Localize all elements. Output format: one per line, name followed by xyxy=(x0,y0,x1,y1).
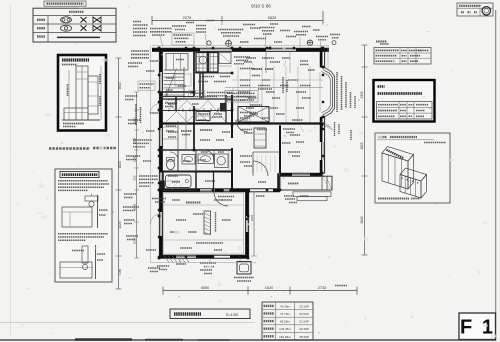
left label block storage W1520 xyxy=(131,50,149,52)
svg-text:43.39P: 43.39P xyxy=(299,327,309,331)
LD extra labels xyxy=(300,64,309,66)
drawing title box xyxy=(170,309,250,319)
svg-text:1823: 1823 xyxy=(360,142,364,149)
aircon outdoor unit xyxy=(237,262,251,275)
svg-text:151.96m: 151.96m xyxy=(279,335,291,339)
svg-text:F 1: F 1 xyxy=(460,317,495,339)
svg-text:3640: 3640 xyxy=(118,82,122,89)
bathtub xyxy=(166,175,192,188)
stamp box frame xyxy=(457,3,493,16)
column dots along exterior walls xyxy=(158,47,160,49)
cabinet panel frame xyxy=(375,133,450,203)
svg-text:2275: 2275 xyxy=(183,15,192,20)
door arc entrance xyxy=(253,161,268,176)
door arc hall-washroom xyxy=(204,150,214,160)
ceiling label xyxy=(240,112,256,114)
entrance area labels xyxy=(282,77,284,93)
ventilation fan sketch 1 counter xyxy=(62,207,92,227)
svg-text:2730: 2730 xyxy=(318,286,326,290)
bottom below-wing numbers xyxy=(200,269,212,271)
legend row2 symbol ellipse xyxy=(61,25,72,31)
kitchen pack title xyxy=(62,58,89,61)
LD small label xyxy=(376,41,387,43)
pantry label xyxy=(181,130,192,132)
info panel room list xyxy=(378,92,423,95)
svg-text:23.10P: 23.10P xyxy=(299,304,309,308)
misc leader lines inside plan xyxy=(250,60,254,66)
stair mid landing box xyxy=(175,74,191,86)
below-wall tick leaders xyxy=(179,258,181,263)
bay corner hatch xyxy=(321,121,326,127)
dining partition lines xyxy=(265,51,267,73)
svg-text:69.56m: 69.56m xyxy=(280,320,291,324)
kitchen pack right dimension xyxy=(100,66,102,120)
svg-text:1820: 1820 xyxy=(133,203,137,210)
west wall window sashes xyxy=(160,72,162,92)
annotation block toumi xyxy=(294,31,308,33)
wing east exterior wall xyxy=(245,192,247,258)
ventilation fan title box xyxy=(60,172,99,178)
svg-text:4395: 4395 xyxy=(360,91,364,98)
east exterior wall upper xyxy=(321,48,323,68)
right vertical notes column 3 xyxy=(345,82,347,108)
kitchen pack panel frame xyxy=(58,55,106,131)
counter label xyxy=(236,96,256,98)
svg-text:21.04P: 21.04P xyxy=(299,320,309,324)
refrigerator xyxy=(219,53,231,64)
F1 sheet number box xyxy=(459,313,496,340)
sheet bottom faint fold line xyxy=(0,322,255,324)
storage boxed label xyxy=(172,33,194,45)
cabinet isometric tall unit front xyxy=(382,153,408,189)
svg-text:1185: 1185 xyxy=(118,268,122,275)
circled cross symbol 2 xyxy=(226,40,232,46)
kitchen pack counter xyxy=(64,108,88,120)
light scan noise xyxy=(224,189,230,191)
kitchen block stripes xyxy=(198,53,200,73)
info panel title 1F xyxy=(378,85,385,88)
left inner dimension chain xyxy=(136,92,138,258)
bay window interior sill lines xyxy=(319,72,321,112)
area table rows xyxy=(264,305,275,307)
hall area labels xyxy=(198,113,210,115)
porch corner diagonals xyxy=(326,176,332,190)
legend row3 label xyxy=(37,35,45,37)
cabinet isometric tall unit top xyxy=(382,147,414,162)
cabinet isometric tall unit side xyxy=(408,155,414,190)
washroom labels xyxy=(201,151,208,153)
door arc wc xyxy=(170,152,178,160)
ventilation fan sketch 1 wall xyxy=(97,195,99,228)
wing inner room outline xyxy=(164,193,244,254)
genkan shoe cabinet xyxy=(254,128,266,148)
staircase arrow xyxy=(166,69,177,97)
legend row1 bowtie mark xyxy=(93,17,101,23)
top annotation extra 2 xyxy=(186,22,194,24)
top wall window sash kitchen xyxy=(200,49,232,51)
cabinet panel bottom note xyxy=(378,198,409,200)
ventilation fan sketch 2 wall xyxy=(95,245,97,279)
wc west casement window arc xyxy=(150,104,159,114)
cabinet top label band xyxy=(386,150,403,158)
circled symbol 4 xyxy=(332,41,336,45)
entrance hall wall vertical xyxy=(279,125,281,173)
circled cross symbol 3 xyxy=(307,40,312,45)
stair area labels xyxy=(166,77,175,79)
dining labels xyxy=(240,68,254,70)
porch steps below xyxy=(293,192,331,197)
kitchen counter front line xyxy=(194,72,232,74)
top-left gutter label block xyxy=(133,21,141,23)
wing south exterior wall xyxy=(159,254,248,256)
interior wall hall vertical xyxy=(193,51,195,150)
entrance lower labels xyxy=(240,129,252,131)
wing interior extra xyxy=(164,204,244,206)
legend row1 X mark xyxy=(81,17,87,23)
cabinet isometric low unit side xyxy=(421,175,427,199)
porch outline xyxy=(280,176,332,190)
bath floor hatch xyxy=(166,183,171,188)
legend row1 label xyxy=(37,19,45,21)
plan top-right outside note xyxy=(380,43,389,45)
units note right of bottom dim xyxy=(335,285,347,287)
annotation block mb548 xyxy=(316,36,328,38)
labels under south wall xyxy=(152,198,166,200)
LD tatami flooring lines xyxy=(237,66,239,122)
ventilation fan sketch 2 duct xyxy=(82,246,88,263)
ventilation fan paragraph 2 xyxy=(58,233,108,235)
legend table frame xyxy=(33,8,116,42)
hall boxed label right xyxy=(225,91,258,103)
pantry shelf lines xyxy=(163,126,178,128)
porch area labels xyxy=(285,198,295,200)
cabinet isometric low unit top xyxy=(400,168,427,181)
legend title box xyxy=(44,1,86,6)
svg-text:1820: 1820 xyxy=(133,137,137,144)
hall inner partition xyxy=(185,110,187,150)
svg-text:9/10 S 86: 9/10 S 86 xyxy=(251,4,271,9)
wing bottom-left ground hatch xyxy=(164,256,169,263)
stamp box dots xyxy=(461,11,464,13)
right column extra rotated xyxy=(334,122,336,136)
svg-text:910: 910 xyxy=(133,175,137,180)
svg-text:143.45m: 143.45m xyxy=(279,327,291,331)
ventilation fan paragraph 1 xyxy=(58,180,108,182)
legend header marks xyxy=(69,11,84,13)
interior wall center vertical xyxy=(231,95,233,192)
legend row2 bowtie mark xyxy=(93,25,101,31)
stair label xyxy=(168,99,181,101)
cabinet isometric low unit front xyxy=(400,175,421,199)
top annotation extra blocks xyxy=(172,25,186,27)
closet east wall xyxy=(225,95,227,124)
left boxed window label xyxy=(138,81,155,91)
closet dark block xyxy=(220,103,226,112)
kitchen peninsula dark bar xyxy=(199,72,204,98)
svg-text:5825: 5825 xyxy=(268,15,277,20)
wing partition label xyxy=(196,242,223,244)
area table frame xyxy=(262,302,313,340)
staircase treads xyxy=(164,69,184,71)
closet diagonal marks xyxy=(166,101,187,123)
LD room scattered labels xyxy=(246,57,256,59)
stair landing edge xyxy=(159,96,194,98)
kitchen pack left dimension xyxy=(68,70,70,120)
stamp box title xyxy=(459,5,481,7)
ventilation fan panel frame xyxy=(55,169,112,282)
left label block towel xyxy=(133,139,152,141)
eave outline top xyxy=(152,45,329,47)
left margin faint fold line xyxy=(10,5,12,335)
LD room label xyxy=(252,68,262,70)
wing right mini dimension xyxy=(253,192,255,256)
legend row2 label xyxy=(37,27,45,29)
legend row3 rule line xyxy=(57,36,100,38)
porch label xyxy=(288,183,299,185)
svg-text:1650: 1650 xyxy=(133,237,137,244)
entrance tile grid xyxy=(256,155,258,172)
top dimension line xyxy=(152,20,323,22)
kitchen pack bottom notes xyxy=(63,123,84,125)
svg-text:74.75m: 74.75m xyxy=(280,312,291,316)
svg-text:1823: 1823 xyxy=(250,214,254,221)
interior wall stair bottom xyxy=(159,91,194,93)
bottom dimension line xyxy=(163,290,357,292)
wing extra labels xyxy=(193,213,203,215)
interior wall y150 xyxy=(159,149,232,151)
west wall casement arc wing xyxy=(150,214,159,224)
stair top cabinet xyxy=(166,54,188,71)
LD extra text fill xyxy=(248,97,257,99)
bathroom wall outline xyxy=(163,172,196,191)
kitchen counter dim line xyxy=(225,87,323,89)
sheet right border line xyxy=(495,10,497,341)
pantry extra xyxy=(166,125,176,127)
svg-text:1620: 1620 xyxy=(265,286,273,290)
svg-text:1820: 1820 xyxy=(118,161,122,168)
closet band mid line xyxy=(163,110,232,112)
eave outline left and bottom xyxy=(150,46,152,263)
left outer dimension chain xyxy=(118,58,120,289)
stamp circle xyxy=(482,7,490,15)
kitchen inner detail lines xyxy=(196,56,218,58)
kitchen area extra labels xyxy=(200,76,214,78)
annotation block DW-1680 xyxy=(150,28,172,30)
legend row1 symbol ellipse xyxy=(61,17,72,23)
wing closet hatched strip xyxy=(204,211,211,234)
annotation block cooler xyxy=(260,27,275,29)
left column extra blocks xyxy=(128,62,142,64)
left label block washstand xyxy=(139,175,158,177)
svg-text:4550: 4550 xyxy=(201,286,209,290)
sheet bottom edge dark line xyxy=(0,339,496,341)
interior wall kitchen vertical xyxy=(207,51,209,73)
kitchen labels xyxy=(234,56,250,58)
kitchen pack cabinet elevation tall unit xyxy=(76,66,88,120)
band y110 tick marks xyxy=(161,108,163,112)
entrance side wall connector xyxy=(277,173,280,190)
svg-text:1920: 1920 xyxy=(118,221,122,228)
ventilation fan sketch 2 counter xyxy=(60,262,92,278)
top wall window sash living xyxy=(266,49,296,51)
wing room label xyxy=(186,202,201,204)
washing machine xyxy=(215,154,229,168)
right vertical notes column 1 xyxy=(336,72,338,112)
interior wall washroom vertical xyxy=(213,172,215,191)
main interior wall y123 xyxy=(159,122,324,124)
left label block mirror xyxy=(123,206,139,208)
interior wall washroom band xyxy=(159,171,232,173)
kitchen pack base line xyxy=(62,119,100,121)
wing below-wall notes xyxy=(200,262,216,264)
void room with X cross xyxy=(238,107,269,123)
aircon label xyxy=(234,277,254,279)
kitchen pack cabinet right column xyxy=(88,76,98,114)
right vertical notes column 2 xyxy=(341,76,343,110)
washroom detail lines xyxy=(228,150,230,172)
info panel black frame xyxy=(374,80,435,122)
entrance step line xyxy=(253,151,280,153)
cabinet panel header xyxy=(378,136,387,138)
scan specks xyxy=(161,54,162,55)
toilet fixture xyxy=(167,159,175,169)
left vertical note xyxy=(135,104,137,125)
top exterior wall xyxy=(152,47,329,49)
south exterior wall main xyxy=(159,188,280,190)
south-east exterior wall xyxy=(280,172,325,174)
closet divider wall xyxy=(175,96,177,110)
annotation leader lines xyxy=(160,36,163,47)
info panel spec table xyxy=(377,102,433,120)
cabinet door lines xyxy=(388,155,390,183)
left column fill blocks xyxy=(150,60,160,62)
washstand dark rect xyxy=(196,112,210,121)
ventilation fan sketch 1 hood xyxy=(85,196,98,201)
svg-text:76.36m: 76.36m xyxy=(280,304,291,308)
handwritten note line xyxy=(49,147,90,150)
circled symbol 1 xyxy=(207,41,211,45)
legend row2 X mark xyxy=(81,25,87,31)
interior wall wc vertical xyxy=(177,150,179,172)
right dimension chain xyxy=(364,45,366,255)
LD spec table xyxy=(374,48,431,65)
svg-text:3640: 3640 xyxy=(360,216,364,223)
west exterior wall xyxy=(158,48,160,258)
closet band labels xyxy=(168,103,176,105)
svg-text:S=1/50: S=1/50 xyxy=(226,313,238,317)
boxed labels hall band xyxy=(189,91,205,100)
bay junction dots xyxy=(322,66,325,69)
door arc LD-hall xyxy=(236,120,248,132)
east wall below bay xyxy=(321,117,323,173)
bath labels xyxy=(168,175,178,177)
wash basin second xyxy=(182,155,195,165)
closet band north wall xyxy=(159,98,232,100)
kitchen unit block xyxy=(196,53,218,73)
cabinet low unit door lines xyxy=(404,176,406,193)
wash basin xyxy=(198,154,214,164)
bay window east xyxy=(325,68,335,117)
svg-text:45.96P: 45.96P xyxy=(299,335,309,339)
hall west closet labels xyxy=(165,102,177,104)
structural column marks xyxy=(158,47,161,50)
svg-text:22.61P: 22.61P xyxy=(299,312,309,316)
toilet label xyxy=(183,160,190,162)
door arc hall-wing xyxy=(214,192,228,206)
annotation block B40 xyxy=(196,25,206,27)
right vertical note kansai xyxy=(350,92,352,108)
annotation block range hood xyxy=(218,29,244,31)
hall labels xyxy=(200,129,212,131)
porch steps vertical xyxy=(321,176,323,190)
cabinet low unit handles xyxy=(402,178,403,179)
